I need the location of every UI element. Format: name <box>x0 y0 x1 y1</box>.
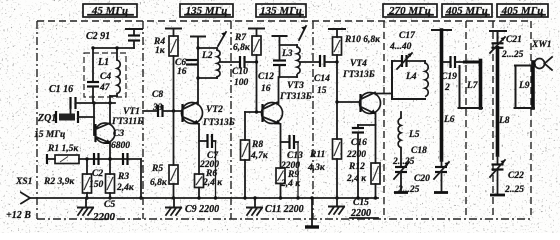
tuning arrow L3 <box>299 26 306 40</box>
resistor R5 6.8k <box>150 111 178 200</box>
capacitor C3 6800 <box>111 129 130 165</box>
svg-text:С2: С2 <box>92 169 103 179</box>
svg-text:С22: С22 <box>508 171 524 181</box>
crystal ZQ1 15 MHz <box>34 103 94 140</box>
wire collector VT4 to L4 <box>376 93 393 95</box>
svg-text:ХW1: ХW1 <box>531 40 552 50</box>
svg-text:2200: 2200 <box>346 150 366 160</box>
svg-text:2..25: 2..25 <box>504 185 524 195</box>
svg-text:L8: L8 <box>498 116 510 126</box>
shield partition wire (stage5/6) <box>465 21 467 219</box>
node 405 MHz label (stage 6) <box>497 4 548 17</box>
svg-text:С17: С17 <box>399 31 416 41</box>
resistor R3 2.4k label <box>116 172 135 193</box>
resistor R11 4.3k <box>307 100 342 199</box>
ground (stage 3) <box>247 196 262 215</box>
capacitor C13 2200 <box>280 135 303 200</box>
svg-text:4,7к: 4,7к <box>250 151 269 161</box>
capacitor C2 150 <box>89 157 115 199</box>
inductor L4 tank <box>392 61 428 99</box>
connector XW1 <box>531 40 552 70</box>
inductor L3 tank <box>273 36 301 77</box>
svg-text:47: 47 <box>99 83 111 93</box>
wire collector VT1 <box>109 96 111 123</box>
svg-text:С19: С19 <box>441 72 457 82</box>
transistor VT2 GT313B <box>182 103 235 129</box>
resistor R2 3.9k <box>43 157 92 199</box>
svg-text:VT1: VT1 <box>123 107 140 117</box>
wire base VT3 <box>245 110 262 113</box>
svg-text:R2 3,9к: R2 3,9к <box>43 177 75 187</box>
transistor VT3 GT313B <box>262 81 312 124</box>
capacitor C22 2...25 trimmer <box>490 155 524 195</box>
svg-text:ГТ313Б: ГТ313Б <box>342 70 375 80</box>
svg-text:405 МГц: 405 МГц <box>501 5 544 17</box>
svg-text:С1 16: С1 16 <box>49 84 73 95</box>
svg-text:100: 100 <box>234 78 249 88</box>
svg-text:L4: L4 <box>405 72 417 82</box>
capacitor C17 4...40 trimmer <box>389 31 425 69</box>
svg-text:R10 6,8к: R10 6,8к <box>344 35 381 45</box>
svg-text:С2 91: С2 91 <box>86 31 110 42</box>
svg-text:L2: L2 <box>201 51 213 61</box>
svg-text:С14: С14 <box>314 74 330 84</box>
svg-text:2...25: 2...25 <box>397 185 420 195</box>
svg-text:ZQ1: ZQ1 <box>37 113 56 124</box>
capacitor C20 2...25 trimmer <box>397 160 449 195</box>
svg-text:16: 16 <box>177 67 187 77</box>
tuning arrow L2 <box>218 32 226 46</box>
svg-text:С16: С16 <box>351 138 367 148</box>
svg-text:С5: С5 <box>104 200 115 210</box>
shield partition wire (stage3/4) <box>312 21 314 219</box>
ground (stage 2) <box>166 198 181 215</box>
wire emitter VT2 <box>198 124 200 174</box>
wire emitter VT1 <box>109 143 111 159</box>
shield enclosure dashed box <box>37 21 531 219</box>
svg-text:С20: С20 <box>414 174 430 184</box>
node 45 MHz label <box>83 4 137 17</box>
svg-text:16: 16 <box>261 84 271 94</box>
resistor R10 6.8k <box>329 29 381 102</box>
svg-text:С21: С21 <box>506 35 522 45</box>
svg-text:С11 2200: С11 2200 <box>265 204 304 215</box>
shield partition wire (stage1/2) <box>142 21 144 219</box>
shield partition wire (stage2/3) <box>230 21 232 219</box>
svg-text:15 МГц: 15 МГц <box>34 130 65 140</box>
svg-text:L5: L5 <box>408 130 420 140</box>
svg-text:+12 В: +12 В <box>6 210 31 221</box>
svg-text:2200: 2200 <box>92 211 116 223</box>
svg-text:С18: С18 <box>411 146 427 156</box>
svg-text:270 МГц: 270 МГц <box>388 5 431 17</box>
svg-text:С13: С13 <box>287 151 303 161</box>
capacitor C16 2200 <box>346 125 376 200</box>
inductor L7 line <box>459 61 483 109</box>
svg-text:L9: L9 <box>518 81 530 91</box>
svg-text:ХS1: ХS1 <box>15 177 32 187</box>
svg-text:6,8к: 6,8к <box>150 178 168 188</box>
capacitor C7 2200 <box>199 134 219 200</box>
svg-text:R3: R3 <box>117 172 129 182</box>
svg-text:L6: L6 <box>443 115 455 125</box>
svg-text:R7: R7 <box>234 33 247 43</box>
svg-text:L1: L1 <box>97 57 109 68</box>
svg-text:2,4 к: 2,4 к <box>280 179 301 189</box>
wire base VT4 <box>337 101 360 103</box>
inductor L1 <box>97 57 120 96</box>
svg-text:С8: С8 <box>152 90 163 100</box>
svg-text:2,4 к: 2,4 к <box>346 174 367 184</box>
svg-text:6800: 6800 <box>111 141 130 151</box>
svg-text:VT3: VT3 <box>287 81 304 91</box>
wire supply rail bottom <box>30 197 378 199</box>
svg-text:С12: С12 <box>258 72 274 82</box>
resistor R9 2.4k <box>276 168 301 200</box>
capacitor C1 16 <box>49 84 115 114</box>
wire collector VT3 to tank <box>278 77 280 103</box>
capacitor C15 2200 label <box>350 198 378 219</box>
node 405 MHz label (stage 5) <box>442 4 492 17</box>
svg-text:1к: 1к <box>155 46 166 56</box>
chassis ground stub through shield <box>305 196 319 227</box>
resistor R12 2.4k <box>346 162 380 200</box>
node 135 MHz label (stage 3) <box>256 4 306 17</box>
shield partition wire (stage4/5) <box>383 21 385 219</box>
capacitor C21 2...25 trimmer <box>490 35 524 155</box>
capacitor C6 16 (tank) <box>175 58 198 77</box>
svg-text:150: 150 <box>89 180 104 190</box>
svg-text:ГТ313Б: ГТ313Б <box>202 118 235 128</box>
inductor L5 coupling <box>398 112 420 166</box>
svg-text:R11: R11 <box>309 150 325 160</box>
capacitor C18 2...25 trimmer <box>392 146 427 193</box>
svg-text:2...25: 2...25 <box>501 50 524 60</box>
wire collector tank top <box>91 46 134 82</box>
svg-text:С3: С3 <box>113 129 124 139</box>
capacitor C12 16 (tank) <box>258 61 286 95</box>
svg-text:2...25: 2...25 <box>392 157 415 167</box>
svg-text:405 МГц: 405 МГц <box>445 5 488 17</box>
svg-text:R12: R12 <box>348 162 365 172</box>
svg-text:R8: R8 <box>251 140 263 150</box>
connector XS1 <box>15 177 32 204</box>
svg-text:2,4к: 2,4к <box>116 183 135 193</box>
svg-text:R1 1,5к: R1 1,5к <box>47 144 79 154</box>
node 135 MHz label (stage 2) <box>180 4 233 17</box>
svg-text:4...40: 4...40 <box>389 42 412 52</box>
wire R3 branch down <box>139 159 142 200</box>
capacitor C14 15 <box>314 55 337 96</box>
inductor L6 line <box>432 30 455 160</box>
inductor L2 tank <box>191 37 220 105</box>
svg-text:6,8к: 6,8к <box>233 43 251 53</box>
node 270 MHz label <box>383 4 437 17</box>
svg-text:4,3к: 4,3к <box>307 163 326 173</box>
resistor R6 2.4k <box>195 169 224 200</box>
resistor R7 6.8k <box>233 29 264 113</box>
shield partition wire (stage6/7) <box>492 21 494 219</box>
svg-text:VT2: VT2 <box>206 105 223 115</box>
ground (stage 4) <box>329 198 344 214</box>
capacitor (emitter coupling) <box>94 153 99 165</box>
inductor L9 line <box>515 62 535 108</box>
resistor R8 4.7k <box>241 112 269 200</box>
svg-text:С9 2200: С9 2200 <box>185 204 219 215</box>
header frequency callout boxes <box>83 4 548 17</box>
capacitor C5 2200 label <box>92 200 116 223</box>
capacitor C2 symbol <box>126 29 142 48</box>
transistor VT1 GT311B <box>95 107 143 144</box>
wire emitter VT3 <box>280 124 282 168</box>
svg-text:45 МГц: 45 МГц <box>91 5 128 17</box>
svg-text:VT4: VT4 <box>350 59 367 69</box>
svg-text:2: 2 <box>444 83 450 93</box>
shield box around L1 <box>84 53 126 97</box>
svg-text:С4: С4 <box>100 72 111 82</box>
svg-text:ГТ311Б: ГТ311Б <box>111 117 143 127</box>
svg-text:С15: С15 <box>353 198 369 208</box>
capacitor C4 47 <box>87 72 111 103</box>
svg-text:L3: L3 <box>281 49 293 59</box>
svg-text:ГТ313Б: ГТ313Б <box>279 92 312 102</box>
svg-text:R5: R5 <box>151 164 163 174</box>
wire tank3 output tap <box>300 61 320 63</box>
wire emitter VT4 <box>375 113 377 163</box>
ground (stage 1) <box>78 198 93 215</box>
svg-text:135 МГц: 135 МГц <box>260 5 302 17</box>
svg-text:2,4 к: 2,4 к <box>202 178 223 188</box>
capacitor C8 33 <box>143 90 182 117</box>
svg-text:135 МГц: 135 МГц <box>186 5 228 17</box>
wire tank output tap <box>220 61 239 63</box>
svg-text:С10: С10 <box>232 67 248 77</box>
svg-text:L7: L7 <box>466 81 479 91</box>
resistor R4 1k <box>153 29 181 112</box>
capacitor C10 100 <box>232 56 257 88</box>
inductor L8 line <box>490 31 510 126</box>
resistor R1 1.5k <box>47 144 141 164</box>
svg-text:15: 15 <box>317 86 327 96</box>
capacitor C19 2 <box>441 56 463 93</box>
transistor VT4 GT313B <box>342 59 381 114</box>
